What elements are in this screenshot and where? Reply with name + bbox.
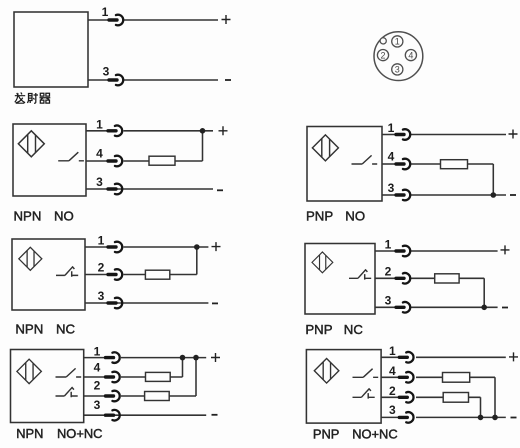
svg-text:1: 1 [389,344,396,358]
svg-text:2: 2 [98,261,105,275]
svg-text:NPN: NPN [16,426,43,441]
svg-text:3: 3 [98,289,105,303]
svg-text:2: 2 [389,384,396,398]
svg-text:3: 3 [96,175,103,189]
svg-text:1: 1 [385,237,392,251]
svg-text:1: 1 [98,233,105,247]
svg-text:4: 4 [94,361,101,375]
svg-text:1: 1 [395,37,400,47]
svg-text:NC: NC [56,322,76,337]
svg-text:PNP: PNP [305,322,332,337]
svg-text:3: 3 [385,293,392,307]
svg-text:1: 1 [94,344,101,358]
svg-text:PNP: PNP [313,426,340,441]
svg-text:NC: NC [344,322,364,337]
svg-text:1: 1 [96,117,103,131]
svg-text:2: 2 [380,50,385,60]
svg-text:3: 3 [103,65,110,79]
svg-text:NO: NO [345,209,365,224]
svg-text:2: 2 [94,379,101,393]
svg-text:3: 3 [389,403,396,417]
svg-text:4: 4 [389,364,396,378]
svg-text:1: 1 [102,5,109,19]
svg-text:NPN: NPN [15,322,43,337]
svg-text:NO+NC: NO+NC [57,426,102,441]
svg-text:3: 3 [395,65,400,75]
svg-text:4: 4 [388,150,395,164]
svg-text:1: 1 [388,121,395,135]
svg-text:4: 4 [408,50,413,60]
svg-text:NPN: NPN [14,208,42,223]
svg-text:PNP: PNP [306,209,333,224]
svg-text:3: 3 [388,181,395,195]
svg-text:NO: NO [54,208,74,223]
svg-text:4: 4 [96,147,103,161]
svg-text:3: 3 [94,398,101,412]
svg-text:2: 2 [385,264,392,278]
svg-text:NO+NC: NO+NC [352,426,397,441]
